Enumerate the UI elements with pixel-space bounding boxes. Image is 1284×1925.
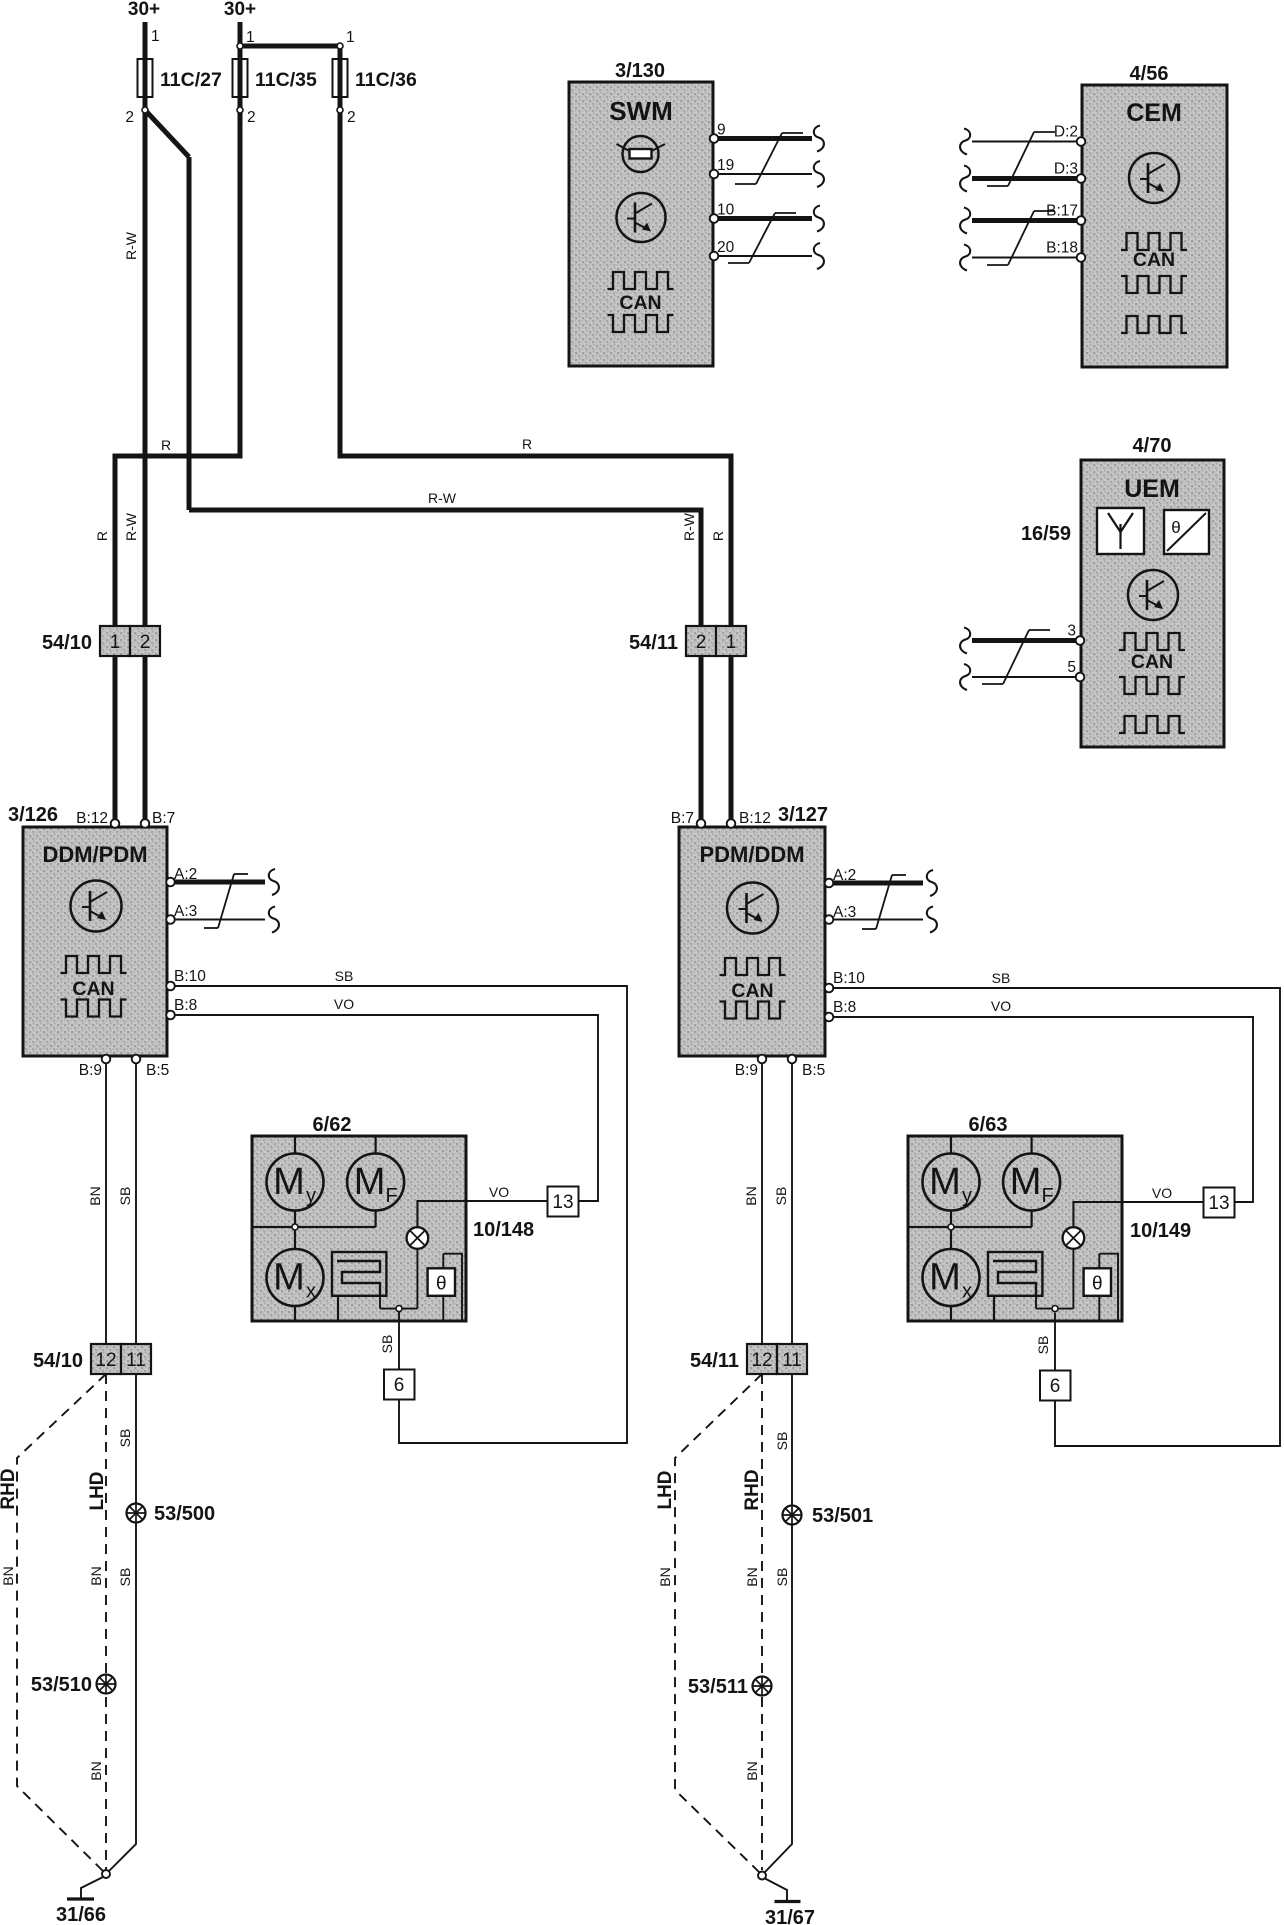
svg-text:2: 2 [247,109,256,126]
svg-text:UEM: UEM [1124,475,1180,503]
svg-text:θ: θ [1092,1273,1103,1294]
svg-text:6: 6 [394,1375,405,1396]
svg-text:M: M [273,1161,305,1203]
svg-text:B:5: B:5 [802,1062,825,1079]
svg-text:13: 13 [552,1192,573,1213]
svg-text:RHD: RHD [0,1468,19,1509]
svg-text:θ: θ [436,1273,447,1294]
svg-text:x: x [962,1281,972,1303]
svg-text:SWM: SWM [609,96,673,126]
svg-text:B:5: B:5 [146,1062,169,1079]
svg-text:RHD: RHD [742,1469,763,1510]
svg-text:LHD: LHD [87,1471,108,1510]
svg-text:4/56: 4/56 [1130,63,1169,85]
svg-text:3/130: 3/130 [615,60,665,82]
svg-text:LHD: LHD [655,1470,676,1509]
svg-text:SB: SB [335,968,354,984]
svg-text:CAN: CAN [619,292,661,314]
svg-text:VO: VO [489,1184,509,1200]
svg-text:y: y [306,1185,316,1207]
svg-text:M: M [354,1161,386,1203]
svg-text:x: x [306,1281,316,1303]
svg-text:12: 12 [95,1350,116,1371]
svg-text:R: R [94,531,110,541]
svg-text:B:7: B:7 [152,810,175,827]
svg-text:53/511: 53/511 [688,1676,748,1698]
svg-text:11C/35: 11C/35 [255,69,317,91]
svg-text:DDM/PDM: DDM/PDM [42,842,147,867]
svg-text:BN: BN [88,1566,104,1585]
svg-text:2: 2 [125,109,134,126]
svg-text:2: 2 [347,109,356,126]
svg-text:31/67: 31/67 [765,1907,815,1925]
svg-text:4/70: 4/70 [1133,435,1172,457]
svg-text:3/127: 3/127 [778,804,828,826]
svg-text:13: 13 [1208,1193,1229,1214]
svg-text:1: 1 [346,29,355,46]
svg-text:30+: 30+ [128,0,160,20]
svg-text:B:10: B:10 [833,970,865,987]
svg-text:SB: SB [117,1568,133,1587]
svg-text:53/510: 53/510 [31,1674,92,1696]
svg-text:54/11: 54/11 [690,1350,739,1372]
svg-text:BN: BN [744,1761,760,1780]
svg-text:6/63: 6/63 [969,1114,1008,1136]
svg-text:12: 12 [751,1350,772,1371]
svg-text:3: 3 [1067,623,1076,640]
svg-text:R-W: R-W [428,490,457,506]
svg-text:54/10: 54/10 [42,632,92,654]
svg-text:BN: BN [744,1567,760,1586]
svg-text:1: 1 [110,632,121,653]
svg-text:M: M [929,1161,961,1203]
svg-text:2: 2 [696,632,707,653]
svg-text:CAN: CAN [1133,249,1175,271]
svg-text:3/126: 3/126 [8,804,58,826]
svg-text:CAN: CAN [1131,651,1173,673]
svg-text:M: M [1010,1161,1042,1203]
svg-text:F: F [385,1185,397,1207]
svg-text:A:3: A:3 [833,904,856,921]
svg-text:20: 20 [717,239,735,256]
svg-text:B:10: B:10 [174,968,206,985]
svg-text:R-W: R-W [681,512,697,541]
svg-text:PDM/DDM: PDM/DDM [699,842,804,867]
svg-text:y: y [962,1185,972,1207]
svg-text:11C/36: 11C/36 [355,69,417,91]
svg-text:1: 1 [246,29,255,46]
svg-text:SB: SB [117,1429,133,1448]
svg-text:30+: 30+ [224,0,256,20]
svg-text:VO: VO [334,996,354,1012]
svg-text:CEM: CEM [1126,99,1182,127]
svg-text:6: 6 [1050,1376,1061,1397]
svg-text:10/149: 10/149 [1130,1220,1191,1242]
svg-text:31/66: 31/66 [56,1904,106,1925]
svg-text:SB: SB [992,970,1011,986]
svg-text:16/59: 16/59 [1021,523,1071,545]
svg-text:B:12: B:12 [76,810,108,827]
svg-text:R-W: R-W [123,231,139,260]
svg-text:SB: SB [1035,1336,1051,1355]
svg-text:B:8: B:8 [833,999,856,1016]
svg-text:2: 2 [140,632,151,653]
svg-text:BN: BN [87,1186,103,1205]
svg-text:BN: BN [743,1186,759,1205]
svg-text:1: 1 [726,632,737,653]
svg-text:M: M [929,1257,961,1299]
svg-text:54/11: 54/11 [629,632,678,654]
svg-text:SB: SB [117,1187,133,1206]
svg-text:B:18: B:18 [1046,240,1078,257]
svg-text:11C/27: 11C/27 [160,69,222,91]
svg-text:D:3: D:3 [1054,161,1078,178]
svg-text:CAN: CAN [731,980,773,1002]
svg-text:R: R [710,531,726,541]
svg-text:10/148: 10/148 [473,1219,534,1241]
svg-text:1: 1 [151,28,160,45]
svg-text:CAN: CAN [72,978,114,1000]
svg-text:BN: BN [657,1567,673,1586]
svg-text:B:12: B:12 [739,810,771,827]
svg-text:B:8: B:8 [174,997,197,1014]
svg-text:B:7: B:7 [671,810,694,827]
svg-text:VO: VO [1152,1185,1172,1201]
svg-text:R: R [522,436,532,452]
svg-text:R-W: R-W [123,512,139,541]
svg-text:SB: SB [379,1335,395,1354]
svg-text:D:2: D:2 [1054,124,1078,141]
svg-text:53/501: 53/501 [812,1505,873,1527]
svg-text:F: F [1041,1185,1053,1207]
svg-text:11: 11 [782,1350,802,1371]
svg-text:B:9: B:9 [79,1062,102,1079]
svg-text:11: 11 [126,1350,146,1371]
svg-text:5: 5 [1067,659,1076,676]
svg-text:B:9: B:9 [735,1062,758,1079]
svg-text:54/10: 54/10 [33,1350,83,1372]
svg-text:A:3: A:3 [174,903,197,920]
svg-text:M: M [273,1257,305,1299]
svg-text:6/62: 6/62 [313,1114,352,1136]
svg-text:SB: SB [773,1187,789,1206]
svg-text:VO: VO [991,998,1011,1014]
svg-text:SB: SB [774,1432,790,1451]
svg-text:10: 10 [717,202,735,219]
svg-text:BN: BN [88,1761,104,1780]
svg-text:SB: SB [774,1568,790,1587]
svg-text:θ: θ [1171,518,1180,537]
svg-text:BN: BN [0,1566,16,1585]
svg-text:19: 19 [717,157,734,174]
svg-text:R: R [161,437,171,453]
svg-text:53/500: 53/500 [154,1503,215,1525]
